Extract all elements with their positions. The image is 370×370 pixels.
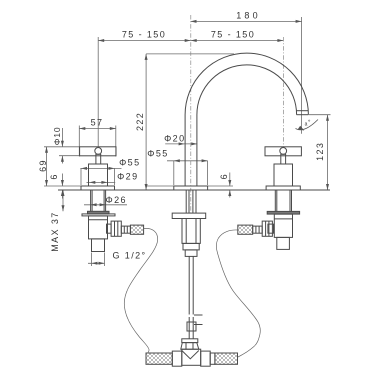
svg-text:6: 6 bbox=[49, 173, 59, 179]
svg-text:Φ55: Φ55 bbox=[119, 158, 140, 168]
svg-text:75 - 150: 75 - 150 bbox=[122, 30, 166, 40]
svg-text:180: 180 bbox=[236, 11, 261, 21]
svg-text:Φ29: Φ29 bbox=[117, 171, 138, 181]
svg-text:57: 57 bbox=[91, 118, 104, 128]
svg-text:Φ10: Φ10 bbox=[52, 127, 62, 146]
svg-text:Φ20: Φ20 bbox=[164, 133, 185, 143]
svg-text:75 - 150: 75 - 150 bbox=[211, 30, 255, 40]
svg-text:Φ55: Φ55 bbox=[147, 149, 168, 159]
svg-text:69: 69 bbox=[38, 159, 48, 172]
svg-text:G 1/2°: G 1/2° bbox=[112, 250, 146, 260]
svg-text:123: 123 bbox=[315, 142, 325, 161]
svg-text:222: 222 bbox=[135, 112, 145, 131]
svg-text:6: 6 bbox=[219, 173, 229, 179]
svg-text:a: a bbox=[305, 121, 308, 127]
svg-text:MAX 37: MAX 37 bbox=[50, 211, 60, 251]
svg-text:Φ26: Φ26 bbox=[105, 195, 126, 205]
